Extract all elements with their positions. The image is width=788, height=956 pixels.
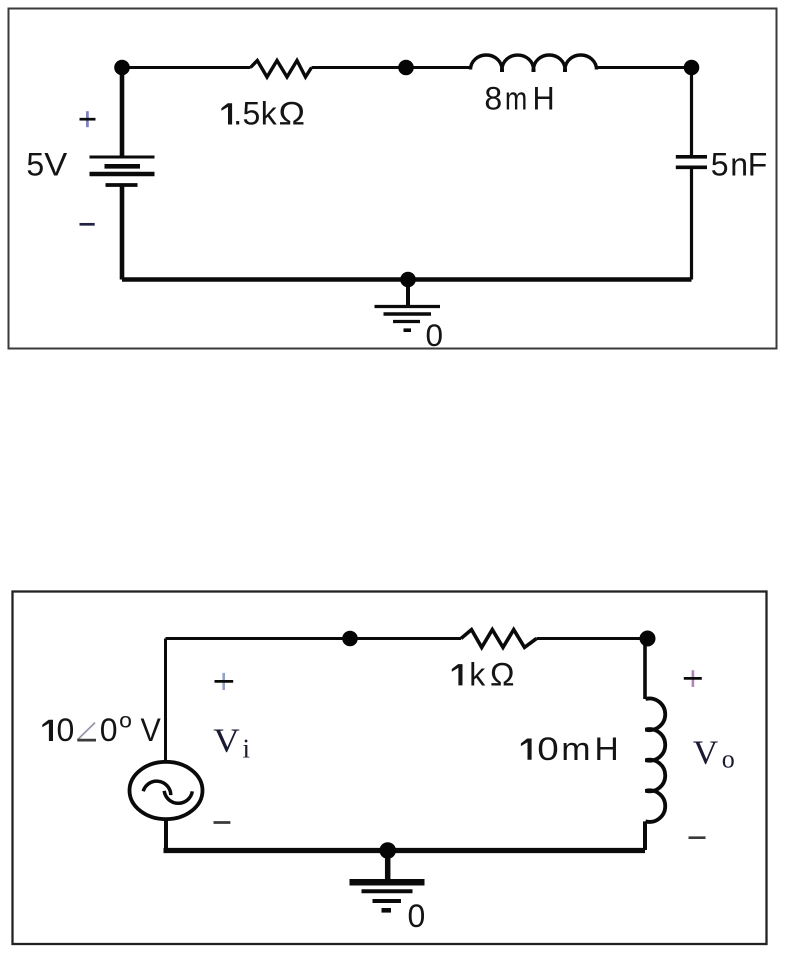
svg-text:Ω: Ω	[279, 96, 306, 132]
svg-text:i: i	[243, 734, 251, 764]
svg-text:5: 5	[26, 146, 44, 182]
svg-text:0: 0	[100, 712, 118, 748]
svg-text:8: 8	[484, 81, 502, 117]
svg-text:m: m	[505, 81, 527, 117]
svg-text:0: 0	[426, 317, 444, 353]
svg-text:V: V	[693, 735, 718, 772]
svg-text:F: F	[748, 147, 768, 183]
svg-text:5: 5	[243, 96, 261, 132]
svg-text:V: V	[213, 722, 240, 759]
svg-text:o: o	[119, 709, 132, 733]
svg-text:0: 0	[57, 712, 75, 748]
svg-text:m: m	[561, 731, 590, 767]
svg-text:H: H	[595, 731, 619, 767]
svg-text:Ω: Ω	[490, 656, 515, 692]
svg-text:k: k	[469, 656, 486, 692]
svg-text:n: n	[730, 147, 748, 183]
svg-text:V: V	[141, 712, 162, 748]
svg-text:0: 0	[537, 731, 559, 767]
svg-text:.: .	[233, 96, 242, 132]
svg-text:o: o	[722, 744, 735, 773]
svg-text:0: 0	[408, 898, 426, 934]
svg-text:5: 5	[711, 147, 729, 183]
svg-text:V: V	[44, 146, 68, 182]
svg-text:k: k	[261, 96, 278, 132]
svg-text:H: H	[533, 81, 555, 117]
